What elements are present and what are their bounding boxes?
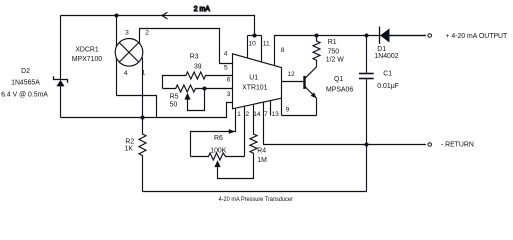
svg-text:Q1: Q1 — [334, 76, 343, 83]
svg-text:XDCR1: XDCR1 — [75, 47, 99, 54]
svg-text:6: 6 — [227, 76, 231, 83]
wire pin3 riser — [116, 16, 118, 47]
wire top rail — [61, 16, 255, 36]
svg-text:7: 7 — [264, 111, 268, 118]
zener D2 wire lower — [60, 86, 62, 117]
potentiometer R6 wiper loop to R4 — [218, 155, 254, 179]
svg-text:1/2 W: 1/2 W — [326, 57, 344, 64]
resistor R4 with pin14 lead — [250, 104, 257, 154]
wire xdcr pin1 drop — [142, 58, 144, 118]
wire pin1 to R6 left — [191, 108, 236, 157]
svg-text:- RETURN: - RETURN — [441, 142, 474, 149]
transistor Q1 base bar — [303, 76, 305, 89]
transducer X bridge — [119, 43, 139, 63]
terminal output circle — [428, 34, 432, 38]
resistor R1 — [313, 36, 320, 67]
svg-text:R1: R1 — [328, 39, 337, 46]
wire node line y117 — [61, 103, 233, 118]
svg-text:13: 13 — [272, 111, 280, 118]
svg-text:39: 39 — [194, 63, 202, 70]
svg-text:2: 2 — [145, 30, 149, 37]
capacitor C1 top lead — [366, 36, 368, 73]
diode D1 lead — [390, 35, 426, 37]
wire pin13 drop — [270, 100, 272, 115]
svg-text:14: 14 — [253, 111, 261, 118]
potentiometer R5 wiper loop — [188, 89, 205, 111]
svg-text:1: 1 — [237, 111, 241, 118]
svg-text:3: 3 — [125, 30, 129, 37]
diode D1 cathode bar — [379, 27, 381, 44]
wire pin7 to return — [264, 102, 426, 145]
transistor Q1 emitter — [305, 87, 317, 99]
svg-text:3: 3 — [227, 91, 231, 98]
node junction C1 top — [365, 34, 369, 38]
svg-text:C1: C1 — [383, 70, 392, 77]
wire pin2 drop — [244, 106, 246, 156]
arrow pin1 wire — [229, 129, 235, 134]
wire pin9-13-emitter stub — [282, 115, 317, 117]
resistor R2 — [139, 118, 146, 192]
transistor Q1 collector — [305, 67, 317, 79]
svg-text:U1: U1 — [249, 74, 258, 81]
wire xdcr pin2 to U1 pin4 — [140, 29, 233, 64]
transistor Q1 emitter arrow — [311, 92, 317, 98]
node junction top rail / pin3 — [115, 14, 119, 18]
svg-text:R5: R5 — [170, 93, 179, 100]
node junction C1 bottom / return — [365, 143, 369, 147]
capacitor C1 plates — [359, 73, 374, 75]
svg-text:4: 4 — [224, 50, 228, 57]
svg-text:6.4 V @ 0.5mA: 6.4 V @ 0.5mA — [1, 91, 48, 98]
svg-text:R4: R4 — [257, 148, 266, 155]
svg-text:MPSA06: MPSA06 — [326, 87, 353, 94]
wire pin10-11 tie bar — [248, 35, 262, 37]
svg-text:12: 12 — [287, 71, 295, 78]
svg-text:R2: R2 — [125, 138, 134, 145]
node junction R2 top — [141, 116, 145, 120]
svg-text:2 mA: 2 mA — [194, 6, 210, 13]
resistor R3 — [163, 72, 233, 89]
svg-text:1: 1 — [142, 69, 146, 76]
potentiometer R6 wiper arrow — [214, 160, 220, 167]
wire bottom rail — [143, 145, 367, 192]
IC U1 XTR101 outline — [233, 54, 282, 109]
svg-text:4-20 mA Pressure Transducer: 4-20 mA Pressure Transducer — [219, 196, 294, 203]
diode D1 anode triangle — [380, 28, 389, 42]
terminal return circle — [428, 143, 432, 147]
zener D2 cathode bar — [54, 76, 68, 83]
wire emitter drop — [316, 98, 318, 115]
svg-text:50: 50 — [170, 101, 178, 108]
svg-text:5: 5 — [224, 65, 228, 72]
svg-text:10: 10 — [249, 41, 257, 48]
svg-text:0.01µF: 0.01µF — [377, 83, 399, 90]
wire pin10 — [247, 36, 249, 59]
svg-text:MPX7100: MPX7100 — [72, 56, 102, 63]
svg-text:D2: D2 — [21, 68, 30, 75]
svg-text:750: 750 — [328, 48, 340, 55]
svg-text:11: 11 — [263, 41, 270, 48]
svg-text:1M: 1M — [257, 157, 267, 164]
svg-text:9: 9 — [286, 107, 290, 114]
svg-text:100K: 100K — [210, 147, 226, 154]
svg-text:2: 2 — [245, 111, 249, 118]
zener D2 wire upper — [60, 16, 62, 80]
svg-text:1N4565A: 1N4565A — [11, 80, 40, 87]
svg-text:4: 4 — [124, 70, 128, 77]
svg-text:R6: R6 — [214, 135, 223, 142]
svg-text:1K: 1K — [125, 146, 134, 153]
wire pin9 drop — [281, 98, 283, 115]
node junction R5 right / pin6 — [203, 87, 207, 91]
transducer XDCR1 circle — [115, 39, 143, 67]
svg-text:8: 8 — [281, 47, 285, 54]
resistor R5 — [163, 85, 233, 92]
svg-text:1N4002: 1N4002 — [374, 53, 398, 60]
svg-text:+ 4-20 mA OUTPUT: + 4-20 mA OUTPUT — [445, 33, 508, 40]
current arrow 2 mA — [162, 12, 168, 19]
svg-text:R3: R3 — [190, 54, 199, 61]
wire pin11 — [261, 36, 263, 62]
potentiometer R5 wiper arrow — [184, 93, 190, 100]
wire xdcr pin4 jog — [117, 58, 157, 118]
svg-text:XTR101: XTR101 — [242, 85, 267, 92]
zener D2 anode triangle — [56, 80, 64, 87]
wire pin8 to rail — [275, 36, 426, 66]
transistor Q1 base wire pin12 — [282, 81, 304, 83]
node junction R1 top — [315, 34, 319, 38]
node junction supply / tie bar — [253, 34, 257, 38]
resistor R6 — [191, 153, 245, 160]
capacitor C1 bottom lead — [366, 79, 368, 144]
